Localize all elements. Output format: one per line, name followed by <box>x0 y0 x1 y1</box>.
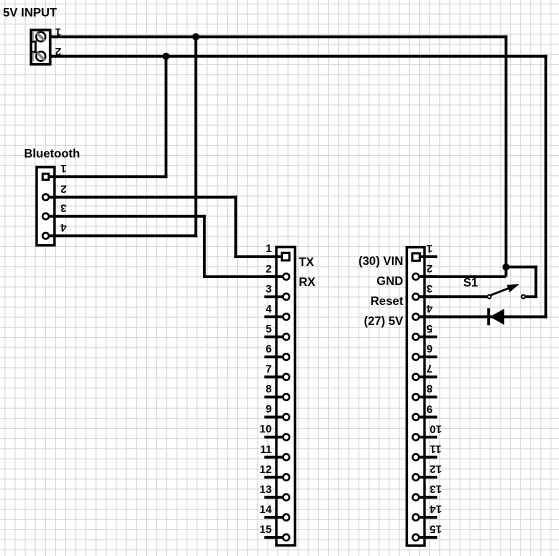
svg-text:15: 15 <box>430 523 442 535</box>
J4 pin 11 <box>413 442 442 460</box>
svg-text:9: 9 <box>266 404 272 416</box>
svg-text:11: 11 <box>430 442 442 454</box>
wire (27) 5V pin4 row through diode <box>420 315 547 318</box>
svg-text:14: 14 <box>429 503 442 515</box>
wire vertical from 5V pin1 down to GND node <box>505 35 508 276</box>
J3 pin 14 <box>260 504 290 521</box>
J3 pin 11 <box>260 444 289 461</box>
J4 pin 13 <box>413 483 442 501</box>
J3 pin 1 (square pad) TX <box>266 243 290 260</box>
J2 pin 4 <box>43 221 67 239</box>
svg-text:GND: GND <box>377 274 404 288</box>
svg-text:10: 10 <box>430 422 442 434</box>
svg-text:12: 12 <box>430 462 442 474</box>
wire Bluetooth pin2 horizontal <box>50 196 238 199</box>
diode D1 triangle <box>490 309 504 325</box>
svg-text:12: 12 <box>260 464 272 476</box>
connector J1 body (5V input screw terminal) <box>31 30 50 64</box>
svg-text:1: 1 <box>266 243 272 255</box>
J4 pin 2 <box>413 262 438 280</box>
svg-text:13: 13 <box>430 483 442 495</box>
connector J3 body (15-pin header TX/RX) <box>276 247 295 545</box>
wire Bluetooth pin1 horizontal <box>50 175 168 178</box>
J3 pin 15 <box>260 524 290 541</box>
svg-text:4: 4 <box>266 303 273 315</box>
svg-text:8: 8 <box>427 382 433 394</box>
svg-text:1: 1 <box>55 26 61 38</box>
junction node A (5V pin1 / Bluetooth pin4) <box>192 33 199 40</box>
switch S1 right pole <box>522 295 526 299</box>
J4 pin 12 <box>413 462 442 480</box>
switch S1 left pole <box>487 295 491 299</box>
switch S1 arm with arrow <box>491 284 520 295</box>
junction node B (5V pin2 / Bluetooth pin1) <box>162 53 169 60</box>
J4 pin 8 <box>413 382 438 400</box>
junction node C (GND / switch net) <box>502 263 509 270</box>
J3 pin 3 <box>264 283 289 300</box>
svg-text:RX: RX <box>299 275 316 289</box>
svg-text:TX: TX <box>299 255 314 269</box>
J3 pin 9 <box>264 404 289 421</box>
J3 pin 2 <box>264 263 289 280</box>
wire GND pin2 to node C <box>420 275 506 278</box>
J1 screw terminal pin 1 <box>36 26 61 42</box>
svg-text:6: 6 <box>266 344 272 356</box>
wire Bluetooth pin3 horizontal <box>50 215 206 218</box>
J3 pin 5 <box>264 323 289 340</box>
J3 pin 13 <box>260 484 290 501</box>
J4 pin 14 <box>413 503 442 521</box>
J2 pin 1 (square pad) <box>43 162 67 180</box>
svg-text:13: 13 <box>260 484 272 496</box>
svg-text:(30) VIN: (30) VIN <box>359 254 404 268</box>
svg-text:(27) 5V: (27) 5V <box>364 314 403 328</box>
connector J2 body (Bluetooth header) <box>37 167 55 245</box>
svg-text:14: 14 <box>260 504 273 516</box>
J1 screw terminal pin 2 <box>36 45 61 61</box>
J4 pin 7 <box>413 362 438 380</box>
wire vertical from node A down to Bluetooth pin4 <box>194 37 197 237</box>
svg-text:2: 2 <box>266 263 272 275</box>
J3 pin 7 <box>264 364 289 381</box>
svg-text:3: 3 <box>427 282 433 294</box>
svg-text:S1: S1 <box>463 276 478 290</box>
wire right vertical from 5V pin2 down to diode row <box>544 55 547 318</box>
J4 pin 4 <box>413 302 438 320</box>
wire to switch right pole <box>526 295 538 298</box>
svg-text:1: 1 <box>60 162 66 174</box>
svg-text:2: 2 <box>55 45 61 57</box>
svg-text:3: 3 <box>60 202 66 214</box>
svg-text:7: 7 <box>427 362 433 374</box>
svg-text:10: 10 <box>260 424 272 436</box>
svg-text:7: 7 <box>266 364 272 376</box>
svg-text:6: 6 <box>427 342 433 354</box>
wire Reset pin3 to switch left pole <box>420 295 487 298</box>
diode D1 cathode bar <box>487 308 490 325</box>
svg-text:5: 5 <box>427 322 433 334</box>
J4 pin 5 <box>413 322 438 340</box>
svg-text:3: 3 <box>266 283 272 295</box>
svg-text:2: 2 <box>427 262 433 274</box>
svg-text:5: 5 <box>266 323 272 335</box>
wire 5V input pin2 horizontal <box>50 55 547 58</box>
svg-text:Bluetooth: Bluetooth <box>24 147 80 161</box>
wire into header pin1 TX <box>234 255 283 258</box>
svg-text:2: 2 <box>60 183 66 195</box>
J4 pin 3 <box>413 282 438 300</box>
svg-text:15: 15 <box>260 524 272 536</box>
J3 pin 10 <box>260 424 290 441</box>
J3 pin 12 <box>260 464 290 481</box>
svg-text:8: 8 <box>266 384 272 396</box>
svg-text:1: 1 <box>427 242 433 254</box>
wire 5V input pin1 horizontal <box>50 35 507 38</box>
J3 pin 8 <box>264 384 289 401</box>
svg-text:9: 9 <box>427 402 433 414</box>
J2 pin 3 <box>43 202 67 220</box>
J2 pin 2 <box>43 183 67 201</box>
svg-text:5V INPUT: 5V INPUT <box>3 6 58 20</box>
J4 pin 9 <box>413 402 438 420</box>
wire into header pin2 RX <box>203 275 284 278</box>
wire vertical Bluetooth pin3 down <box>203 215 206 278</box>
J4 pin 15 <box>413 523 442 541</box>
svg-text:4: 4 <box>426 302 433 314</box>
wire vertical down to switch pole <box>535 266 538 299</box>
J3 pin 4 <box>264 303 289 320</box>
svg-text:4: 4 <box>60 221 67 233</box>
wire Bluetooth pin4 horizontal <box>50 234 198 237</box>
svg-text:11: 11 <box>260 444 272 456</box>
connector J4 body (15-pin header VIN/GND/Reset/5V) <box>407 247 425 545</box>
J3 pin 6 <box>264 344 289 361</box>
wire vertical from node B down to Bluetooth pin1 <box>165 56 168 178</box>
J4 pin 6 <box>413 342 438 360</box>
wire node C branch right <box>506 266 537 269</box>
J4 pin 10 <box>413 422 442 440</box>
svg-text:Reset: Reset <box>371 294 404 308</box>
wire vertical Bluetooth pin2 down <box>234 196 237 258</box>
J4 pin 1 (square pad) VIN <box>412 242 437 261</box>
